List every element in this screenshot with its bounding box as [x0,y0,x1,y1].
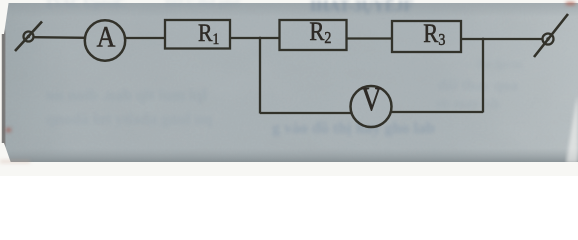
ammeter A [85,20,125,60]
photographed gray paper [2,3,578,162]
svg-text:A: A [97,21,116,54]
wire: left terminal to ammeter [33,36,86,39]
node B (junction right of R3, top of voltmeter branch) [482,38,485,41]
wire: R1 to R2 (through junction node) [230,37,279,39]
circuit drawing [15,14,568,127]
svg-text:un noib .nab qit ium iql: un noib .nab qit ium iql [46,87,208,104]
terminal T1 (left input terminal) [15,22,42,52]
resistor R2 [280,20,347,50]
wire: voltmeter branch, right vertical drop from node B [482,39,484,113]
small red specks (photo artifacts) [0,2,575,163]
white page surround [0,0,578,176]
svg-text:TVAC ƯpériC: TVAC ƯpériC [45,0,126,10]
svg-text:qnodà lut ydada gnol uq: qnodà lut ydada gnol uq [46,111,212,128]
svg-text:eb may ish: eb may ish [436,97,500,112]
svg-text:IHAT-3ỤYỂJF: IHAT-3ỤYỂJF [310,0,413,15]
svg-text:V: V [361,80,382,118]
wire: voltmeter to bottom-right vertical [392,111,484,113]
wire: bottom-left horizontal to voltmeter [260,112,351,114]
wire: R3 to right terminal [461,38,543,40]
svg-text:đổi thay qua: đổi thay qua [438,78,519,94]
wire: R2 to R3 [347,37,393,39]
white corner wedges of the photo [0,0,9,34]
node A (junction between R1 and R2, top of voltmeter branch) [259,37,262,40]
svg-text:ĐIÊU tbd gệul: ĐIÊU tbd gệul [165,0,240,9]
wire: ammeter to R1 [125,37,165,39]
wire: voltmeter branch, left vertical drop from node A [259,38,261,114]
dark page-spine line at left edge [2,30,5,152]
voltmeter V [351,86,392,127]
terminal T2 (right output terminal) [534,14,568,57]
resistor R3 [392,21,461,52]
svg-text:g vào đồ thị hay gho lab: g vào đồ thị hay gho lab [272,120,435,137]
resistor R1 [165,20,230,49]
